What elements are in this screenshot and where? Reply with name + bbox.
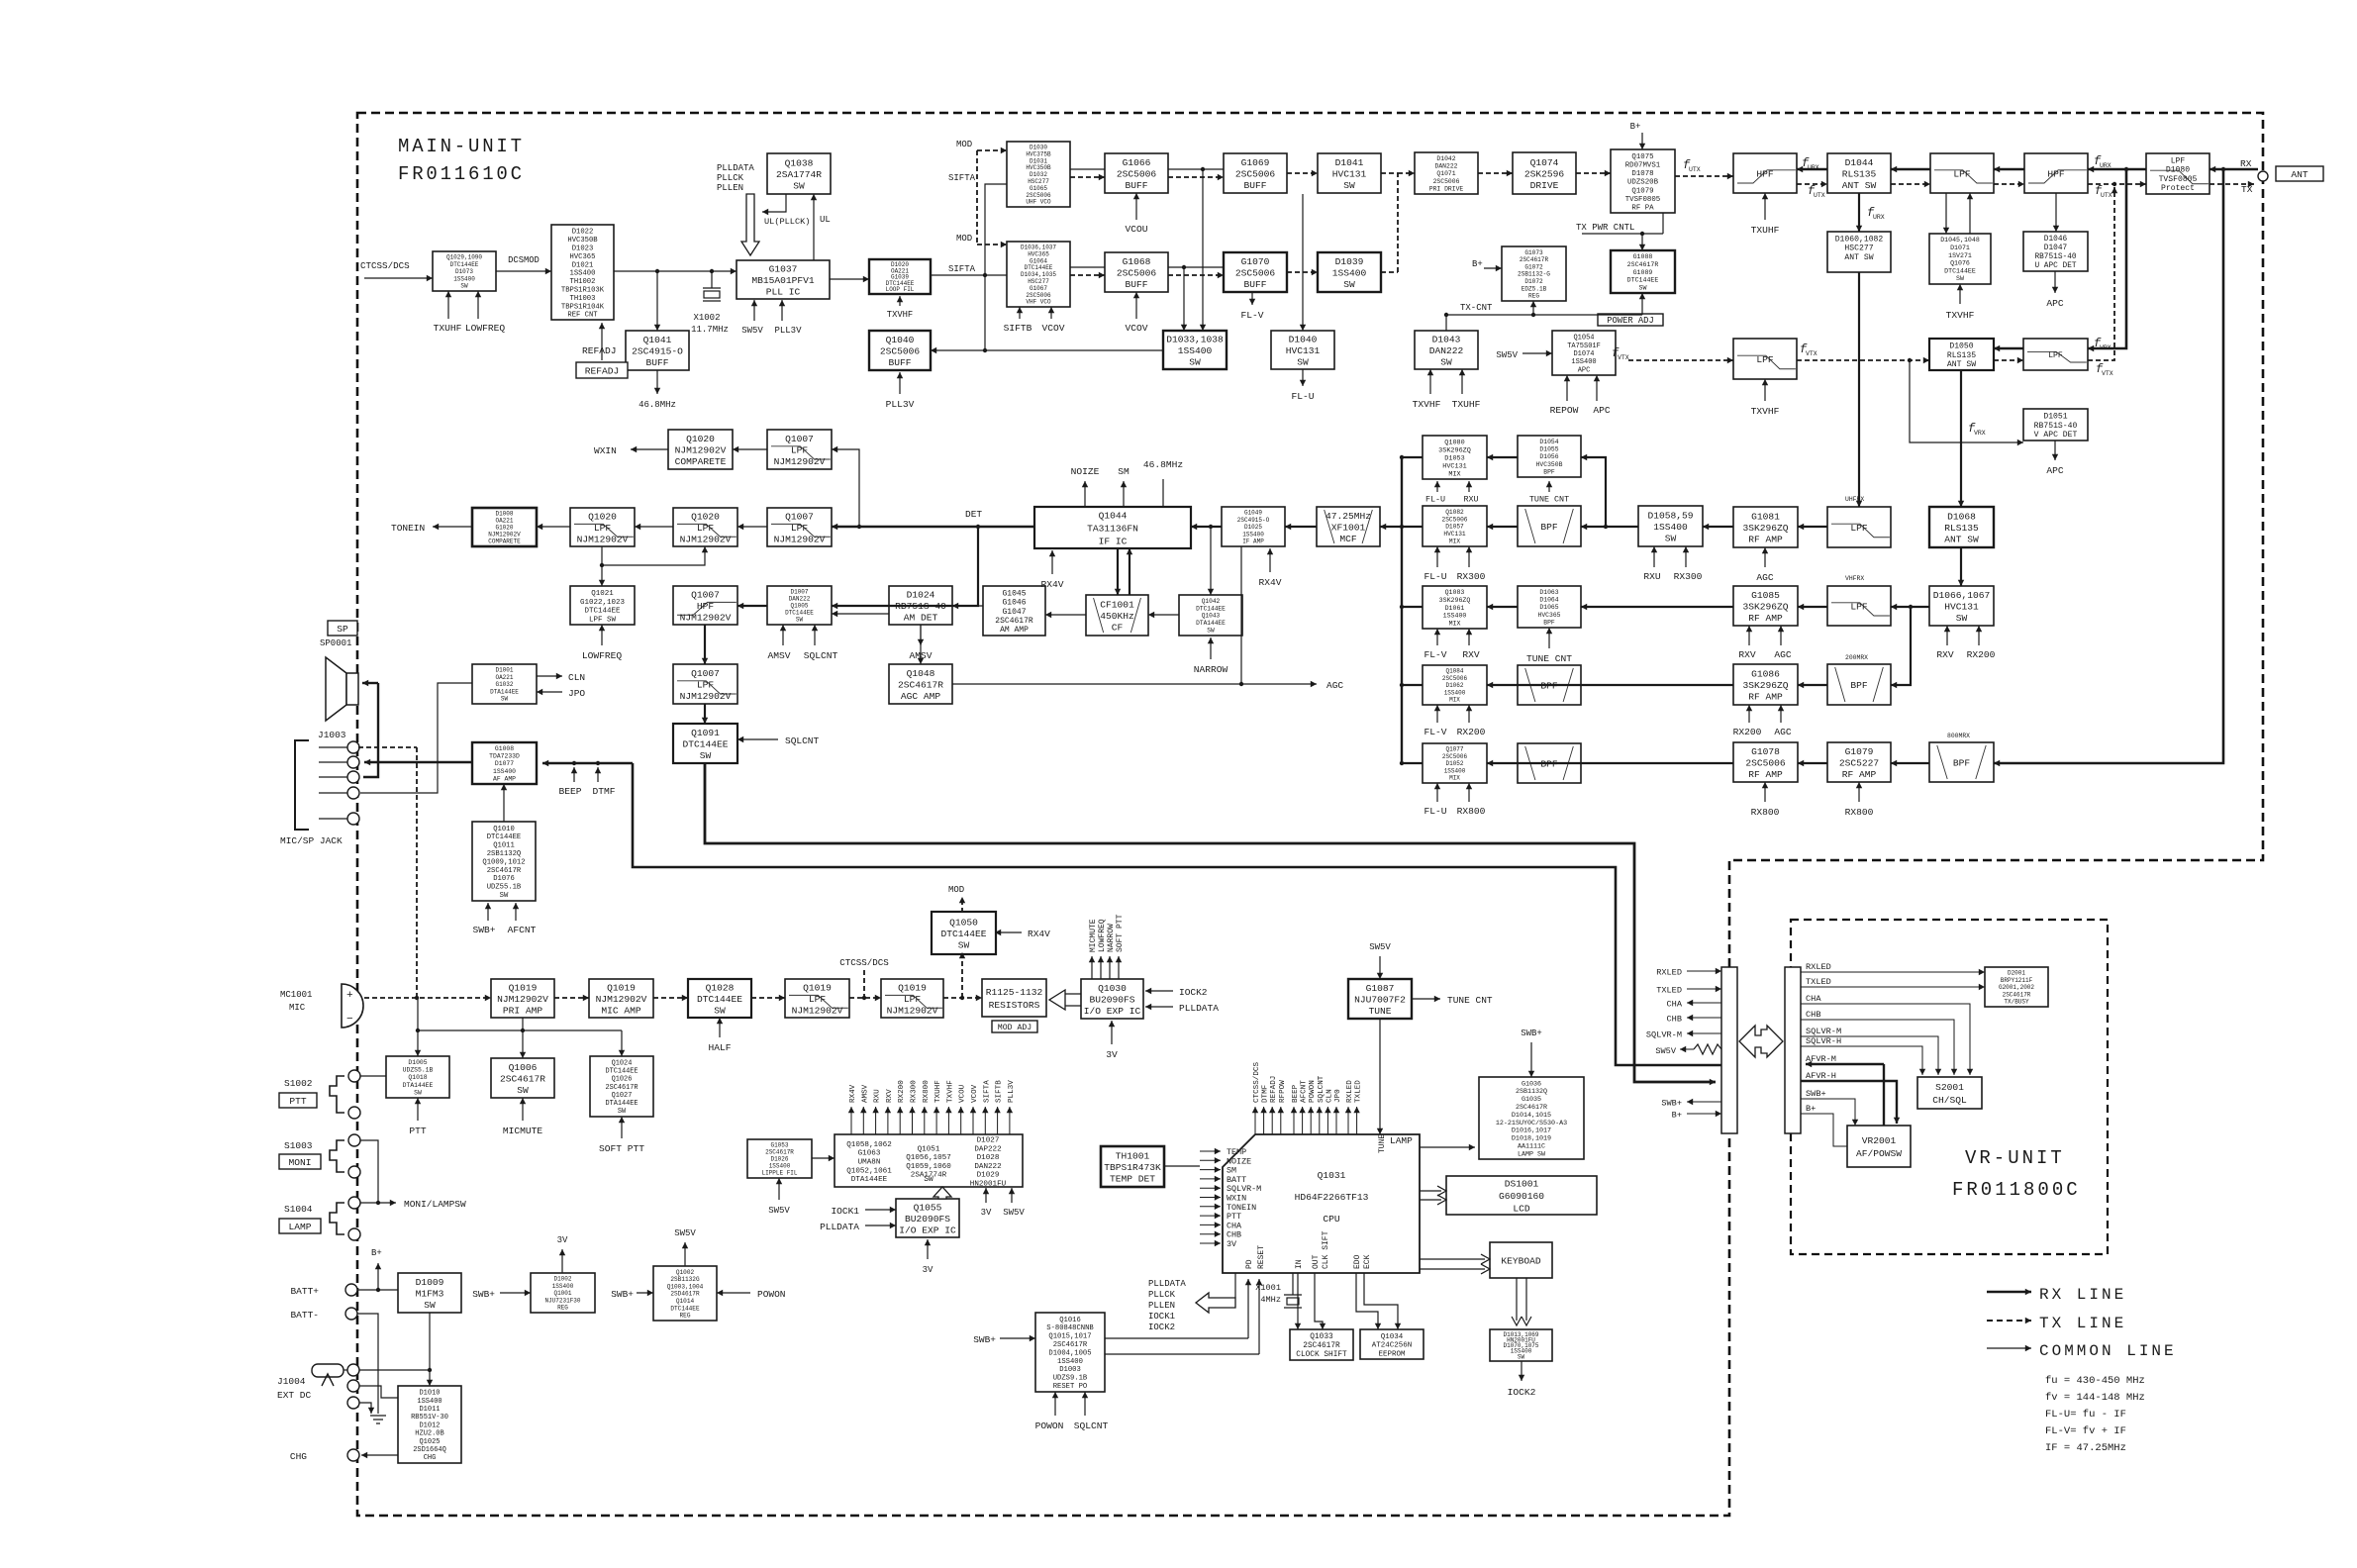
svg-text:NARROW: NARROW <box>1107 924 1116 952</box>
svg-text:SQLCNT: SQLCNT <box>1318 1075 1326 1103</box>
svg-text:AGC: AGC <box>1774 727 1792 737</box>
svg-text:RXU: RXU <box>1463 495 1478 505</box>
svg-text:EXT DC: EXT DC <box>277 1390 312 1401</box>
svg-text:RXLED: RXLED <box>1346 1080 1354 1103</box>
svg-text:SIFTB: SIFTB <box>1004 323 1032 334</box>
svg-text:TXVHF: TXVHF <box>1413 399 1441 410</box>
svg-text:RX800: RX800 <box>1845 807 1874 818</box>
svg-text:PLLCK: PLLCK <box>717 173 744 183</box>
svg-text:SWB+: SWB+ <box>1661 1099 1682 1109</box>
svg-text:REPOW: REPOW <box>1550 405 1579 416</box>
svg-text:J1004: J1004 <box>277 1376 306 1387</box>
svg-text:4MHz: 4MHz <box>1260 1295 1281 1305</box>
svg-text:URX: URX <box>2100 162 2111 169</box>
svg-text:TXVHF: TXVHF <box>887 310 913 320</box>
svg-text:RXV: RXV <box>1738 649 1756 660</box>
svg-text:SWB+: SWB+ <box>1806 1089 1826 1099</box>
svg-text:TXUHF: TXUHF <box>934 1080 942 1103</box>
svg-text:Q1010DTC144EEQ10112SB1132QQ100: Q1010DTC144EEQ10112SB1132QQ1009,10122SC4… <box>482 826 525 900</box>
svg-text:MAIN-UNIT: MAIN-UNIT <box>398 136 525 157</box>
svg-text:VCOV: VCOV <box>1125 323 1147 334</box>
svg-text:BEEP: BEEP <box>1292 1084 1300 1103</box>
svg-text:Q10742SK2596DRIVE: Q10742SK2596DRIVE <box>1524 157 1565 191</box>
svg-text:X1001: X1001 <box>1255 1283 1281 1293</box>
svg-text:PTT: PTT <box>289 1096 307 1107</box>
svg-text:MC1001: MC1001 <box>280 990 312 1000</box>
svg-text:EDO: EDO <box>1353 1254 1362 1269</box>
svg-text:MOD: MOD <box>956 234 972 244</box>
svg-text:CTCSS/DCS: CTCSS/DCS <box>839 957 889 968</box>
svg-text:AGC: AGC <box>1326 680 1343 691</box>
svg-text:NARROW: NARROW <box>1194 664 1228 675</box>
svg-text:SIFTA: SIFTA <box>948 264 976 274</box>
svg-text:OUT: OUT <box>1312 1254 1321 1269</box>
svg-text:PLLEN: PLLEN <box>717 183 743 193</box>
svg-text:PLLEN: PLLEN <box>1148 1301 1175 1311</box>
svg-text:+: + <box>346 990 353 1002</box>
svg-text:X1002: X1002 <box>693 313 720 323</box>
svg-text:REFADJ: REFADJ <box>585 365 620 376</box>
svg-text:CLK SIFT: CLK SIFT <box>1322 1230 1330 1269</box>
svg-text:TUNE CNT: TUNE CNT <box>1529 495 1569 505</box>
svg-text:IOCK2: IOCK2 <box>1508 1387 1536 1398</box>
svg-text:KEYBOAD: KEYBOAD <box>1501 1255 1541 1266</box>
svg-text:RX200: RX200 <box>1967 649 1996 660</box>
svg-text:D1050RLS135ANT SW: D1050RLS135ANT SW <box>1947 343 1976 370</box>
svg-text:TUNE: TUNE <box>1378 1134 1387 1153</box>
svg-text:LAMP: LAMP <box>288 1222 311 1232</box>
svg-text:Q1031: Q1031 <box>1318 1170 1346 1181</box>
svg-text:Q1016S-80848CNNBQ1015,10172SC4: Q1016S-80848CNNBQ1015,10172SC4617RD1004,… <box>1046 1317 1094 1391</box>
svg-text:TX-CNT: TX-CNT <box>1460 303 1493 313</box>
svg-text:REFADJ: REFADJ <box>1270 1076 1278 1103</box>
svg-text:SIFTA: SIFTA <box>948 173 976 183</box>
svg-text:TX: TX <box>2241 184 2253 195</box>
svg-text:AMSV: AMSV <box>861 1084 869 1103</box>
svg-text:SW5V: SW5V <box>1369 942 1391 952</box>
svg-text:3V: 3V <box>1106 1049 1118 1060</box>
svg-text:PLL3V: PLL3V <box>774 326 802 336</box>
svg-text:UTX: UTX <box>1814 192 1825 199</box>
svg-text:TXUHF: TXUHF <box>1751 225 1780 236</box>
svg-text:−: − <box>346 1014 353 1026</box>
svg-text:URX: URX <box>1873 214 1885 221</box>
svg-text:TX LINE: TX LINE <box>2039 1315 2126 1332</box>
svg-text:B+: B+ <box>371 1248 382 1258</box>
svg-text:RX300: RX300 <box>911 1080 919 1103</box>
svg-text:MOD: MOD <box>956 140 972 149</box>
svg-text:B+: B+ <box>1472 259 1483 269</box>
svg-text:SW5V: SW5V <box>1655 1046 1676 1056</box>
svg-text:AGC: AGC <box>1774 649 1792 660</box>
svg-text:FL-V: FL-V <box>1240 310 1263 321</box>
svg-text:UTX: UTX <box>1689 166 1701 173</box>
svg-text:CHA: CHA <box>1806 994 1821 1004</box>
svg-text:46.8MHz: 46.8MHz <box>638 400 676 410</box>
svg-text:RX200: RX200 <box>898 1080 906 1103</box>
svg-text:3V: 3V <box>923 1265 933 1275</box>
svg-text:BPF: BPF <box>1850 680 1868 691</box>
svg-text:200MRX: 200MRX <box>1845 654 1868 661</box>
svg-text:NOIZE: NOIZE <box>1071 466 1100 477</box>
svg-text:LOWFREQ: LOWFREQ <box>582 650 623 661</box>
svg-text:JPO: JPO <box>568 688 585 699</box>
svg-text:RX LINE: RX LINE <box>2039 1286 2126 1304</box>
svg-text:CHA: CHA <box>1667 1000 1683 1010</box>
svg-text:HPF: HPF <box>1756 168 1774 179</box>
svg-text:RX300: RX300 <box>1674 571 1703 582</box>
svg-text:RX4V: RX4V <box>1258 577 1281 588</box>
svg-text:G10732SC4617RG10722SB1132-GD10: G10732SC4617RG10722SB1132-GD1072EDZ5.1BR… <box>1518 249 1550 300</box>
svg-text:IOCK2: IOCK2 <box>1179 987 1208 998</box>
svg-text:SW: SW <box>924 1175 933 1184</box>
svg-text:J1003: J1003 <box>318 730 346 740</box>
svg-text:D1068RLS135ANT SW: D1068RLS135ANT SW <box>1944 511 1979 544</box>
svg-text:TXLED: TXLED <box>1355 1080 1363 1103</box>
svg-text:TXUHF: TXUHF <box>434 323 462 334</box>
svg-text:SQLVR-M: SQLVR-M <box>1806 1027 1841 1036</box>
svg-text:FL-V: FL-V <box>1424 649 1446 660</box>
svg-text:MIC: MIC <box>289 1003 306 1013</box>
svg-text:AFVR-H: AFVR-H <box>1806 1071 1836 1081</box>
svg-text:SWB+: SWB+ <box>472 1289 495 1300</box>
svg-text:CTCSS/DCS: CTCSS/DCS <box>360 260 410 271</box>
svg-text:TXVHF: TXVHF <box>1751 406 1780 417</box>
svg-text:UTX: UTX <box>2101 192 2112 199</box>
svg-text:RXV: RXV <box>1936 649 1954 660</box>
svg-text:VR-UNIT: VR-UNIT <box>1965 1147 2065 1169</box>
svg-text:UL(PLLCK): UL(PLLCK) <box>764 217 810 227</box>
svg-text:TXLED: TXLED <box>1656 986 1682 996</box>
svg-text:COMMON LINE: COMMON LINE <box>2039 1342 2177 1360</box>
svg-text:SM: SM <box>1118 466 1129 477</box>
svg-text:FL-U= fu - IF: FL-U= fu - IF <box>2045 1409 2126 1421</box>
svg-text:RESET: RESET <box>1257 1245 1266 1269</box>
svg-text:RX4V: RX4V <box>1028 929 1050 939</box>
svg-text:PLLDATA: PLLDATA <box>1148 1279 1186 1289</box>
svg-text:TUNE CNT: TUNE CNT <box>1447 995 1493 1006</box>
svg-text:TXVHF: TXVHF <box>1946 310 1975 321</box>
svg-text:RX4V: RX4V <box>1040 579 1063 590</box>
svg-text:MOD: MOD <box>948 885 964 895</box>
svg-text:PLLCK: PLLCK <box>1148 1290 1176 1300</box>
svg-text:VRX: VRX <box>1974 430 1986 437</box>
svg-text:APC: APC <box>1593 405 1611 416</box>
svg-text:800MRX: 800MRX <box>1947 733 1970 739</box>
svg-text:LAMP: LAMP <box>1390 1135 1413 1146</box>
svg-text:RXLED: RXLED <box>1656 968 1682 978</box>
svg-text:DET: DET <box>965 509 982 520</box>
svg-text:RX4V: RX4V <box>849 1084 857 1103</box>
svg-text:APC: APC <box>2046 298 2064 309</box>
svg-text:11.7MHz: 11.7MHz <box>691 325 729 335</box>
svg-text:RX800: RX800 <box>1457 806 1486 817</box>
svg-text:AMSV: AMSV <box>767 650 790 661</box>
svg-text:POWON: POWON <box>1309 1080 1317 1103</box>
svg-text:LOWFREQ: LOWFREQ <box>1098 919 1107 952</box>
svg-text:RXV: RXV <box>886 1089 894 1103</box>
svg-text:RXV: RXV <box>1462 649 1480 660</box>
svg-text:FL-V= fv + IF: FL-V= fv + IF <box>2045 1425 2126 1437</box>
svg-text:PTT: PTT <box>409 1126 427 1136</box>
svg-text:S1003: S1003 <box>284 1140 313 1151</box>
svg-text:SQLCNT: SQLCNT <box>1074 1421 1109 1431</box>
svg-text:CLN: CLN <box>568 672 585 683</box>
svg-text:LPF: LPF <box>1850 523 1868 534</box>
svg-text:FL-U: FL-U <box>1424 806 1446 817</box>
svg-text:IOCK2: IOCK2 <box>1148 1323 1175 1332</box>
svg-text:FR011800C: FR011800C <box>1952 1179 2081 1201</box>
svg-text:TONEIN: TONEIN <box>391 523 425 534</box>
svg-text:RXU: RXU <box>874 1089 882 1103</box>
svg-text:CHB: CHB <box>1667 1015 1682 1025</box>
svg-text:Q1075RD07MVS1D1078UDZS20BQ1079: Q1075RD07MVS1D1078UDZS20BQ1079TVSF0805RF… <box>1625 153 1661 213</box>
svg-text:VHFRX: VHFRX <box>1845 575 1864 582</box>
svg-text:LOWFREQ: LOWFREQ <box>465 323 506 334</box>
svg-text:RX200: RX200 <box>1457 727 1486 737</box>
svg-text:SQLCNT: SQLCNT <box>804 650 838 661</box>
svg-text:G10792SC5227RF AMP: G10792SC5227RF AMP <box>1839 746 1879 780</box>
svg-text:PLL3V: PLL3V <box>1008 1080 1016 1103</box>
svg-text:3V: 3V <box>1227 1239 1236 1249</box>
svg-text:SOFT PTT: SOFT PTT <box>599 1143 644 1154</box>
svg-text:UHFRX: UHFRX <box>1845 496 1864 503</box>
svg-text:DTMF: DTMF <box>592 786 615 797</box>
svg-text:AGC: AGC <box>1756 572 1774 583</box>
svg-text:TXVHF: TXVHF <box>946 1080 954 1103</box>
svg-text:PLLDATA: PLLDATA <box>820 1222 859 1232</box>
svg-text:SQLVR-M: SQLVR-M <box>1646 1030 1682 1040</box>
svg-text:MONI: MONI <box>288 1157 311 1168</box>
svg-text:RX: RX <box>2240 158 2252 169</box>
svg-text:ANT: ANT <box>2291 169 2308 180</box>
svg-text:LPF: LPF <box>1953 168 1971 179</box>
svg-text:HALF: HALF <box>708 1042 731 1053</box>
svg-text:PLL3V: PLL3V <box>886 399 915 410</box>
svg-text:46.8MHz: 46.8MHz <box>1143 459 1183 470</box>
svg-text:SW5V: SW5V <box>674 1228 696 1238</box>
svg-text:CTCSS/DCS: CTCSS/DCS <box>1253 1062 1261 1103</box>
svg-text:APC: APC <box>2046 465 2064 476</box>
svg-text:BEEP: BEEP <box>558 786 581 797</box>
svg-text:POWON: POWON <box>1035 1421 1064 1431</box>
svg-text:fu = 430-450 MHz: fu = 430-450 MHz <box>2045 1375 2145 1387</box>
svg-text:MONI/LAMPSW: MONI/LAMPSW <box>404 1199 466 1210</box>
svg-text:IOCK1: IOCK1 <box>1148 1312 1175 1322</box>
svg-text:RX800: RX800 <box>923 1080 931 1103</box>
svg-text:SW5V: SW5V <box>741 326 763 336</box>
svg-text:VTX: VTX <box>2102 370 2113 377</box>
svg-text:DCSMOD: DCSMOD <box>508 255 540 265</box>
svg-text:S1002: S1002 <box>284 1078 313 1089</box>
svg-text:URX: URX <box>1808 164 1819 171</box>
svg-text:PLLDATA: PLLDATA <box>717 163 754 173</box>
svg-text:VCOV: VCOV <box>1041 323 1064 334</box>
svg-text:FL-V: FL-V <box>1424 727 1446 737</box>
svg-text:SQLCNT: SQLCNT <box>785 735 820 746</box>
svg-text:VCOU: VCOU <box>1125 224 1147 235</box>
svg-text:TXUHF: TXUHF <box>1452 399 1481 410</box>
svg-text:ECK: ECK <box>1363 1254 1372 1269</box>
svg-text:Q1024DTC144EEQ10262SC4617RQ102: Q1024DTC144EEQ10262SC4617RQ1027DTA144EES… <box>605 1060 638 1117</box>
svg-text:Q10022SB1132GQ1003,10042SD4617: Q10022SB1132GQ1003,10042SD4617RQ1014DTC1… <box>667 1269 704 1320</box>
svg-text:POWER ADJ: POWER ADJ <box>1607 316 1654 326</box>
svg-text:IOCK1: IOCK1 <box>831 1206 859 1217</box>
svg-text:CLN: CLN <box>1326 1089 1333 1103</box>
svg-text:MOD ADJ: MOD ADJ <box>998 1024 1031 1032</box>
svg-text:3V: 3V <box>557 1235 568 1245</box>
svg-text:SWB+: SWB+ <box>1521 1029 1542 1038</box>
svg-text:LPF: LPF <box>1850 601 1868 612</box>
svg-text:CPU: CPU <box>1323 1214 1340 1225</box>
svg-text:SP0001: SP0001 <box>320 638 351 648</box>
svg-text:TX PWR CNTL: TX PWR CNTL <box>1576 223 1634 233</box>
svg-text:BATT+: BATT+ <box>290 1286 319 1297</box>
svg-text:B+: B+ <box>1630 122 1641 132</box>
svg-text:SW5V: SW5V <box>1496 350 1518 360</box>
svg-text:LPF: LPF <box>1756 354 1774 365</box>
svg-text:VRX: VRX <box>2100 344 2111 351</box>
svg-text:SIFTA: SIFTA <box>983 1080 991 1103</box>
svg-text:DTMF: DTMF <box>1262 1084 1270 1103</box>
svg-text:RFPOW: RFPOW <box>1279 1080 1287 1103</box>
svg-text:WXIN: WXIN <box>594 445 617 456</box>
svg-text:VCOU: VCOU <box>959 1084 967 1103</box>
svg-text:VTX: VTX <box>1806 350 1817 357</box>
svg-text:fv = 144-148 MHz: fv = 144-148 MHz <box>2045 1392 2145 1404</box>
svg-text:MIC/SP JACK: MIC/SP JACK <box>280 835 343 846</box>
svg-text:BATT-: BATT- <box>290 1310 319 1321</box>
svg-text:IN: IN <box>1295 1259 1304 1269</box>
svg-text:SW5V: SW5V <box>1003 1208 1025 1218</box>
svg-text:S1004: S1004 <box>284 1204 313 1215</box>
svg-text:TXLED: TXLED <box>1806 977 1831 987</box>
svg-text:RXU: RXU <box>1643 571 1661 582</box>
svg-text:PD: PD <box>1245 1259 1254 1269</box>
svg-text:B+: B+ <box>1806 1104 1816 1114</box>
svg-text:RX800: RX800 <box>1751 807 1780 818</box>
svg-text:RX300: RX300 <box>1457 571 1486 582</box>
svg-text:TUNE CNT: TUNE CNT <box>1526 653 1572 664</box>
svg-text:FL-U: FL-U <box>1424 571 1446 582</box>
svg-text:BPF: BPF <box>1953 757 1971 768</box>
svg-text:PLLDATA: PLLDATA <box>1179 1003 1219 1014</box>
svg-text:IF = 47.25MHz: IF = 47.25MHz <box>2045 1442 2126 1454</box>
svg-text:UL: UL <box>820 215 831 225</box>
svg-text:FR011610C: FR011610C <box>398 163 525 185</box>
svg-text:AFCNT: AFCNT <box>1301 1080 1309 1103</box>
svg-text:VCOV: VCOV <box>971 1084 979 1103</box>
svg-text:MICMUTE: MICMUTE <box>503 1126 543 1136</box>
svg-text:SW5V: SW5V <box>768 1206 790 1216</box>
svg-text:RXLED: RXLED <box>1806 962 1831 972</box>
svg-text:CHB: CHB <box>1806 1010 1820 1020</box>
svg-text:SP: SP <box>337 624 348 635</box>
svg-text:SWB+: SWB+ <box>611 1289 634 1300</box>
svg-text:HD64F2266TF13: HD64F2266TF13 <box>1295 1192 1369 1203</box>
svg-text:LPF: LPF <box>2048 351 2063 360</box>
svg-text:JP0: JP0 <box>1334 1089 1342 1103</box>
svg-text:SOFT PTT: SOFT PTT <box>1116 914 1125 952</box>
svg-text:REFADJ: REFADJ <box>582 345 617 356</box>
svg-text:FL-U: FL-U <box>1425 495 1445 505</box>
svg-text:SIFTB: SIFTB <box>996 1080 1004 1103</box>
svg-text:BPF: BPF <box>1540 522 1558 533</box>
svg-text:SWB+: SWB+ <box>472 925 495 935</box>
svg-text:FL-U: FL-U <box>1291 391 1314 402</box>
svg-text:G10782SC5006RF AMP: G10782SC5006RF AMP <box>1745 746 1786 780</box>
svg-text:SWB+: SWB+ <box>973 1334 996 1345</box>
svg-text:CHG: CHG <box>290 1451 307 1462</box>
svg-text:D1044RLS135ANT SW: D1044RLS135ANT SW <box>1842 157 1877 191</box>
svg-text:POWON: POWON <box>757 1289 786 1300</box>
svg-text:3V: 3V <box>981 1208 992 1218</box>
svg-text:AFCNT: AFCNT <box>508 925 537 935</box>
svg-text:MICMUTE: MICMUTE <box>1089 919 1098 952</box>
svg-text:RX200: RX200 <box>1733 727 1762 737</box>
svg-text:HPF: HPF <box>2047 168 2065 179</box>
svg-text:VTX: VTX <box>1618 354 1629 361</box>
svg-text:SQLVR-H: SQLVR-H <box>1806 1036 1841 1046</box>
svg-text:B+: B+ <box>1672 1111 1682 1121</box>
